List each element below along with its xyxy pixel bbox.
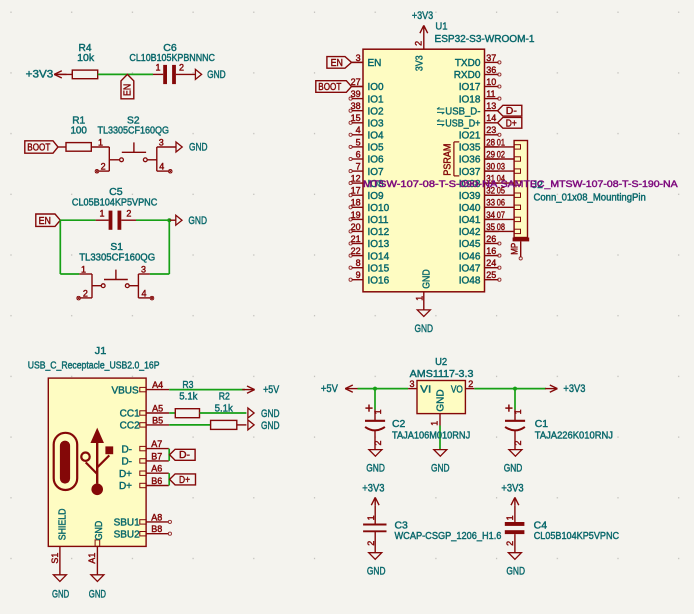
svg-text:IO9: IO9: [368, 191, 385, 202]
svg-text:GND: GND: [431, 462, 450, 474]
J1 pin B5 (CC2): [120, 415, 170, 431]
svg-text:CL05B104KP5VPNC: CL05B104KP5VPNC: [72, 198, 157, 209]
svg-text:USB_D-: USB_D-: [445, 106, 480, 117]
svg-text:D+: D+: [119, 469, 132, 480]
J2 pin 06 (wire from U1 IO40): [485, 198, 521, 210]
svg-text:A6: A6: [151, 464, 162, 474]
svg-text:1: 1: [155, 63, 160, 73]
svg-text:1: 1: [366, 515, 376, 520]
svg-text:EN: EN: [331, 58, 343, 69]
wire joining A6/B6: [168, 473, 170, 485]
C5 reference label: [109, 187, 123, 198]
J1 pin B7 (D-): [121, 451, 168, 467]
svg-text:USB_C_Receptacle_USB2.0_16P: USB_C_Receptacle_USB2.0_16P: [28, 360, 160, 371]
U1 pin 9 (IO16) left: [349, 270, 390, 286]
svg-text:4: 4: [142, 288, 147, 298]
svg-text:+3V3: +3V3: [501, 482, 523, 494]
svg-text:VI: VI: [420, 384, 431, 395]
wire C2 top: [374, 389, 376, 410]
svg-text:TAJA226K010RNJ: TAJA226K010RNJ: [535, 430, 613, 441]
svg-text:D+: D+: [119, 481, 132, 492]
svg-text:IO45: IO45: [459, 239, 481, 250]
C2 pin 1 number: [373, 409, 383, 414]
svg-text:3: 3: [410, 379, 415, 389]
U1 reference label: [435, 22, 447, 33]
svg-text:CL10B105KPBNNNC: CL10B105KPBNNNC: [129, 53, 215, 64]
svg-text:35: 35: [486, 222, 495, 232]
svg-text:4: 4: [159, 162, 164, 172]
svg-text:5.1k: 5.1k: [179, 391, 198, 402]
svg-text:1: 1: [99, 209, 104, 219]
C1 pin 1 number: [513, 409, 523, 414]
U1 pin 24 (IO47) right: [459, 258, 501, 274]
J2 pin 03 (wire from U1 IO37): [485, 162, 521, 174]
global label D- (J1): [170, 449, 196, 461]
C5 value CL05B104KP5VPNC: [72, 198, 157, 209]
svg-text:J1: J1: [95, 346, 107, 357]
svg-text:1: 1: [98, 137, 103, 147]
svg-text:GND: GND: [261, 408, 280, 420]
svg-text:3V3: 3V3: [415, 55, 426, 71]
wire C5 pin 2 to GND junction: [136, 219, 169, 221]
svg-text:CC2: CC2: [120, 421, 140, 432]
R1 value 100: [70, 126, 87, 137]
svg-text:U2: U2: [435, 357, 447, 368]
power symbol +3V3 (C3): [362, 482, 384, 505]
svg-text:USB_D+: USB_D+: [445, 119, 480, 130]
U2 pin 2 (VO): [451, 379, 474, 395]
global label D+ at U1: [498, 117, 522, 129]
ground symbol GND (C6): [195, 69, 225, 81]
svg-text:GND: GND: [367, 566, 386, 578]
U2 pin 1 (GND): [429, 389, 446, 425]
U1 pin 20 (IO12) left: [349, 222, 390, 238]
wire +5V to U2 VI: [358, 388, 409, 390]
wire R2 to GND: [237, 424, 247, 426]
svg-text:GND: GND: [422, 269, 433, 289]
ground symbol GND (CC1): [248, 408, 280, 420]
J2 pin 04 (wire from U1 IO38): [485, 174, 521, 186]
svg-text:07: 07: [497, 210, 505, 220]
U1 pin 5 (IO5) left: [349, 137, 384, 153]
ground symbol GND (S2): [176, 142, 208, 154]
U1 pin 6 (IO6) left: [349, 149, 384, 165]
wire U2 GND down: [439, 426, 441, 450]
svg-text:B6: B6: [151, 476, 162, 486]
svg-text:2: 2: [505, 541, 515, 546]
svg-text:IO48: IO48: [459, 275, 481, 286]
global label D- at U1: [498, 105, 522, 117]
S2 pin 2 number and no-connect: [95, 162, 106, 174]
J1 pin A4 (VBUS): [111, 380, 169, 396]
C1 reference label: [535, 419, 549, 430]
C1 pin 2 number: [513, 440, 523, 445]
U1 pin 19 (IO11) left: [349, 210, 389, 226]
wire CC1 to R3: [169, 412, 175, 414]
svg-text:C1: C1: [535, 419, 549, 430]
svg-text:IO11: IO11: [368, 215, 389, 226]
svg-text:IO47: IO47: [459, 263, 481, 274]
svg-text:01: 01: [497, 137, 505, 147]
C4 pin 1 number: [505, 515, 515, 520]
svg-text:IO36: IO36: [459, 155, 481, 166]
svg-text:2: 2: [366, 541, 376, 546]
J1 pin A1 (GND): [87, 521, 105, 575]
S2 pin 4 number and no-connect: [159, 162, 172, 174]
svg-text:VBUS: VBUS: [111, 385, 139, 396]
C5 pin 1 number: [99, 209, 104, 219]
ground symbol GND (C4): [506, 553, 525, 578]
svg-text:34: 34: [486, 210, 495, 220]
svg-text:13: 13: [486, 101, 496, 111]
svg-text:3: 3: [159, 137, 164, 147]
svg-text:BOOT: BOOT: [318, 82, 341, 93]
U1 pin 32 (IO39) right: [459, 186, 499, 202]
J2 pin 07 (wire from U1 IO41): [485, 210, 521, 222]
ground symbol GND (C5/S1): [169, 215, 207, 227]
svg-text:IO39: IO39: [459, 191, 481, 202]
svg-text:R3: R3: [182, 380, 193, 391]
J1 pin S1 (SHIELD): [50, 509, 69, 575]
C4 reference label: [534, 520, 548, 531]
svg-text:MP: MP: [509, 243, 519, 255]
power symbol +5V (U2): [321, 383, 358, 395]
svg-text:11: 11: [486, 89, 495, 99]
C4 value CL05B104KP5VPNC: [534, 531, 619, 542]
ground symbol GND (U2): [431, 450, 450, 475]
global label D+ (J1): [170, 474, 196, 486]
svg-text:2: 2: [101, 162, 106, 172]
svg-text:VO: VO: [451, 384, 463, 395]
svg-text:MTSW-107-08-T-S-090-NA: MTSW-107-08-T-S-090-NA: [363, 179, 497, 189]
U1 pin 17 (IO9) left: [349, 186, 384, 202]
resistor R1: [66, 143, 91, 152]
svg-text:D-: D-: [121, 444, 132, 455]
svg-text:B5: B5: [152, 415, 163, 425]
C6 pin 1 number: [155, 63, 160, 73]
USB trident icon: [81, 429, 113, 495]
svg-text:GND: GND: [89, 589, 106, 601]
capacitor C4: [505, 505, 525, 552]
U2 reference label: [435, 357, 447, 368]
svg-text:PSRAM: PSRAM: [443, 144, 454, 176]
svg-text:1: 1: [513, 409, 523, 414]
U1 pin 27 (IO0) left: [351, 77, 384, 93]
U1 pin 29 (IO36) right: [459, 149, 499, 165]
svg-text:SBU2: SBU2: [114, 529, 141, 540]
R1 reference label: [72, 115, 85, 126]
svg-text:GND: GND: [189, 142, 208, 154]
J2 pin 01 (wire from U1 IO35): [485, 137, 521, 149]
global label EN (C5 net): [36, 214, 61, 227]
svg-text:GND: GND: [504, 462, 523, 474]
svg-text:C2: C2: [392, 419, 406, 430]
J2 mounting pad bar: [513, 238, 530, 242]
svg-text:02: 02: [497, 149, 505, 159]
svg-text:GND: GND: [261, 420, 280, 432]
wire EN loop left side: [60, 220, 79, 274]
S1 pin 3 number: [141, 264, 146, 274]
svg-text:D+: D+: [179, 475, 190, 486]
U1 pin 1 (GND) bottom: [414, 269, 432, 310]
U1 pin 10 (IO17) right: [459, 77, 501, 93]
svg-text:IO1: IO1: [368, 94, 385, 105]
svg-text:C5: C5: [109, 187, 123, 198]
ground symbol GND (C2): [366, 450, 385, 475]
U1 pin 14 (USB_D+) right: [437, 113, 499, 129]
svg-text:33: 33: [486, 198, 495, 208]
U1 pin 7 (IO7) left: [349, 162, 384, 178]
svg-text:IO4: IO4: [368, 131, 385, 142]
J2 pin 08 (wire from U1 IO42): [485, 222, 521, 234]
svg-text:36: 36: [486, 65, 496, 75]
svg-text:+5V: +5V: [263, 384, 280, 396]
J1 value USB_C_Receptacle_USB2.0_16P: [28, 360, 160, 371]
C2 value TAJA106M010RNJ: [392, 430, 470, 441]
svg-text:RXD0: RXD0: [454, 70, 481, 81]
U1 pin 30 (IO37) right: [459, 162, 499, 178]
C3 reference label: [395, 520, 409, 531]
regulator U2 body: [417, 381, 465, 414]
svg-text:A5: A5: [152, 403, 163, 413]
svg-text:A8: A8: [151, 512, 162, 522]
U1 pin 38 (IO2) left: [349, 101, 384, 117]
J1 pin A8 (SBU1): [114, 512, 172, 528]
S2 value TL3305CF160QG: [98, 126, 170, 137]
J1 reference label: [95, 346, 107, 357]
capacitor C3: [363, 505, 386, 552]
svg-text:03: 03: [497, 162, 505, 172]
resistor R3: [175, 409, 199, 418]
svg-text:3: 3: [356, 53, 361, 63]
svg-text:TL3305CF160QG: TL3305CF160QG: [98, 126, 170, 137]
svg-text:10k: 10k: [77, 53, 95, 64]
svg-text:AMS1117-3.3: AMS1117-3.3: [410, 369, 474, 380]
connector J1 body: [48, 378, 146, 546]
svg-text:IO16: IO16: [368, 275, 390, 286]
power symbol +5V (J1): [242, 384, 279, 396]
svg-text:1: 1: [373, 409, 383, 414]
svg-text:IO35: IO35: [459, 143, 481, 154]
S1 reference label: [110, 242, 123, 253]
capacitor C5: [96, 211, 136, 230]
global label BOOT at U1: [316, 81, 363, 94]
C6 pin 2 number: [179, 63, 184, 73]
S1 pin 2 number and no-connect: [77, 288, 88, 300]
J2 pin 05 (wire from U1 IO39): [485, 186, 521, 198]
svg-text:D+: D+: [506, 118, 517, 129]
R2 value 5.1k: [215, 403, 234, 414]
svg-text:29: 29: [486, 149, 495, 159]
J2 reference label: [532, 180, 543, 191]
U1 pin 4 (IO4) left: [349, 125, 384, 141]
svg-text:IO37: IO37: [459, 167, 481, 178]
C2 reference label: [392, 419, 406, 430]
svg-text:+3V3: +3V3: [362, 482, 384, 494]
J1 pin A5 (CC1): [120, 403, 170, 419]
switch S2 (push button): [99, 142, 176, 171]
svg-text:U1: U1: [435, 22, 447, 33]
svg-text:1: 1: [429, 421, 439, 426]
J1 pin B8 (SBU2): [114, 524, 172, 540]
U1 pin 34 (IO41) right: [459, 210, 499, 226]
svg-text:GND: GND: [94, 521, 105, 541]
svg-text:BOOT: BOOT: [27, 143, 50, 154]
svg-text:IO17: IO17: [459, 82, 481, 93]
J1 pin B6 (D+): [119, 476, 169, 492]
U1 pin 11 (IO18) right: [459, 89, 501, 105]
U1 pin 37 (TXD0) right: [455, 53, 501, 69]
U1 pin 31 (IO38) right: [459, 174, 499, 190]
C3 pin 1 number: [366, 515, 376, 520]
svg-text:1: 1: [414, 296, 424, 301]
svg-text:TXD0: TXD0: [455, 58, 481, 69]
svg-text:EN: EN: [368, 58, 382, 69]
svg-text:5.1k: 5.1k: [215, 403, 234, 414]
U1 pin 21 (IO13) left: [349, 234, 390, 250]
svg-text:IO5: IO5: [368, 143, 385, 154]
wire CC2 to R2: [169, 424, 210, 426]
S1 pin 4 number and no-connect: [142, 288, 154, 300]
svg-text:2: 2: [468, 379, 473, 389]
svg-text:+3V3: +3V3: [563, 383, 585, 395]
U1 pin 22 (IO14) left: [349, 246, 390, 262]
svg-text:IO6: IO6: [368, 155, 385, 166]
field MTSW-107-08-T-S-090-NA (J2): [363, 179, 497, 189]
capacitor C6: [153, 65, 195, 84]
svg-text:A4: A4: [152, 380, 163, 390]
R4 value 10k: [77, 53, 95, 64]
svg-text:2: 2: [126, 209, 131, 219]
svg-text:D-: D-: [121, 457, 132, 468]
C1 value TAJA226K010RNJ: [535, 430, 613, 441]
wire R3 to GND: [200, 412, 247, 414]
J2 mounting pin MP: [509, 241, 522, 260]
C5 pin 2 number: [126, 209, 131, 219]
svg-text:EN: EN: [39, 216, 51, 227]
S2 pin 3 number: [159, 137, 164, 147]
wire joining A7/B7: [168, 449, 170, 461]
switch S1 (push button): [79, 270, 150, 298]
svg-text:9: 9: [356, 270, 361, 280]
U1 pin 18 (IO10) left: [349, 198, 390, 214]
U1 pin 25 (IO48) right: [459, 270, 501, 286]
power symbol +3V3 (C4): [501, 482, 523, 505]
junction (C5/S1/GND): [167, 218, 171, 222]
svg-text:IO42: IO42: [459, 227, 481, 238]
svg-text:ESP32-S3-WROOM-1: ESP32-S3-WROOM-1: [435, 34, 535, 45]
U1 pin 13 (USB_D-) right: [437, 101, 499, 117]
S2 pin 1 number: [98, 137, 103, 147]
R2 reference label: [219, 391, 230, 402]
field SAMTEC_MTSW-107-08-T-S-190-NA (J2): [501, 179, 678, 189]
C3 value WCAP-CSGP_1206_H1.6: [395, 531, 502, 542]
svg-text:+3V3: +3V3: [412, 10, 433, 22]
capacitor C2 (polarized): [365, 405, 385, 450]
svg-text:IO2: IO2: [368, 106, 385, 117]
U1 pin 8 (IO15) left: [349, 258, 390, 274]
USB receptacle outline icon: [54, 433, 77, 490]
svg-text:08: 08: [497, 222, 505, 232]
svg-text:100: 100: [70, 126, 87, 137]
svg-text:SBU1: SBU1: [114, 518, 141, 529]
capacitor C1 (polarized): [505, 405, 525, 450]
svg-text:B7: B7: [151, 451, 162, 461]
C2 pin 2 number: [373, 440, 383, 445]
svg-text:GND: GND: [52, 589, 69, 601]
S1 value TL3305CF160QG: [79, 253, 155, 264]
svg-text:WCAP-CSGP_1206_H1.6: WCAP-CSGP_1206_H1.6: [395, 531, 502, 542]
ground symbol GND (U1): [415, 310, 434, 335]
wire U2 VO to +3V3: [474, 388, 546, 390]
power symbol +3V3 (U2): [545, 383, 585, 395]
C4 pin 2 number: [505, 541, 515, 546]
svg-text:1: 1: [81, 264, 86, 274]
svg-text:R2: R2: [219, 391, 230, 402]
U1 pin 2 (3V3) number and name: [414, 41, 426, 71]
svg-text:IO14: IO14: [368, 251, 390, 262]
J1 pin A6 (D+): [119, 464, 169, 480]
ground symbol GND (SHIELD): [52, 575, 69, 601]
wire R4 to C6 with EN tap: [98, 73, 153, 75]
svg-text:D-: D-: [506, 106, 517, 117]
svg-text:IO40: IO40: [459, 203, 481, 214]
wire VBUS to +5V: [169, 389, 245, 391]
svg-text:30: 30: [486, 162, 495, 172]
svg-text:+3V3: +3V3: [26, 69, 54, 81]
R4 reference label: [79, 43, 92, 54]
U1 value ESP32-S3-WROOM-1: [435, 34, 535, 45]
svg-text:25: 25: [486, 270, 496, 280]
svg-text:2: 2: [373, 440, 383, 445]
svg-text:C4: C4: [534, 520, 548, 531]
C6 reference label: [163, 43, 177, 54]
svg-text:23: 23: [486, 125, 496, 135]
svg-text:Conn_01x08_MountingPin: Conn_01x08_MountingPin: [534, 192, 646, 203]
svg-text:SAMTEC_MTSW-107-08-T-S-190-NA: SAMTEC_MTSW-107-08-T-S-190-NA: [501, 179, 678, 189]
junction (C1 tap): [513, 387, 517, 391]
wire BOOT to R1: [58, 146, 66, 148]
resistor R4: [54, 70, 98, 79]
svg-text:4: 4: [356, 125, 361, 135]
svg-text:S1: S1: [110, 242, 123, 253]
ground symbol GND (CC2): [248, 420, 280, 432]
U1 pin 3 (EN) left: [352, 53, 382, 69]
svg-text:27: 27: [351, 77, 361, 87]
svg-text:GND: GND: [506, 566, 525, 578]
U1 pin 28 (IO35) right: [459, 137, 499, 153]
svg-text:IO21: IO21: [459, 131, 481, 142]
J1 pin A7 (D-): [121, 439, 168, 455]
svg-text:2: 2: [513, 440, 523, 445]
svg-text:IO46: IO46: [459, 251, 481, 262]
S2 reference label: [127, 115, 140, 126]
svg-text:TAJA106M010RNJ: TAJA106M010RNJ: [392, 430, 470, 441]
ground symbol GND (J1 A1): [89, 575, 106, 601]
svg-text:IO0: IO0: [368, 82, 385, 93]
svg-text:37: 37: [486, 53, 496, 63]
svg-text:2: 2: [414, 41, 424, 46]
svg-text:IO13: IO13: [368, 239, 390, 250]
U1 pin 23 (IO21) right: [459, 125, 501, 141]
svg-text:10: 10: [486, 77, 496, 87]
svg-text:B8: B8: [151, 524, 162, 534]
svg-text:28: 28: [486, 137, 495, 147]
svg-text:8: 8: [356, 258, 361, 268]
svg-text:EN: EN: [123, 84, 134, 96]
svg-text:SHIELD: SHIELD: [58, 509, 69, 541]
svg-text:3: 3: [141, 264, 146, 274]
